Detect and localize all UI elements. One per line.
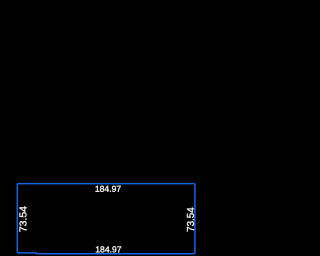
parcel boundary: bottom edge (with small jog near left) [17, 252, 195, 255]
parcel boundary: left edge [16, 184, 18, 253]
svg-text:73.54: 73.54 [186, 207, 197, 232]
svg-text:184.97: 184.97 [95, 244, 122, 254]
parcel boundary: right edge [194, 184, 196, 254]
parcel boundary: top edge [17, 183, 195, 185]
svg-text:184.97: 184.97 [95, 184, 122, 194]
svg-text:73.54: 73.54 [18, 206, 29, 232]
